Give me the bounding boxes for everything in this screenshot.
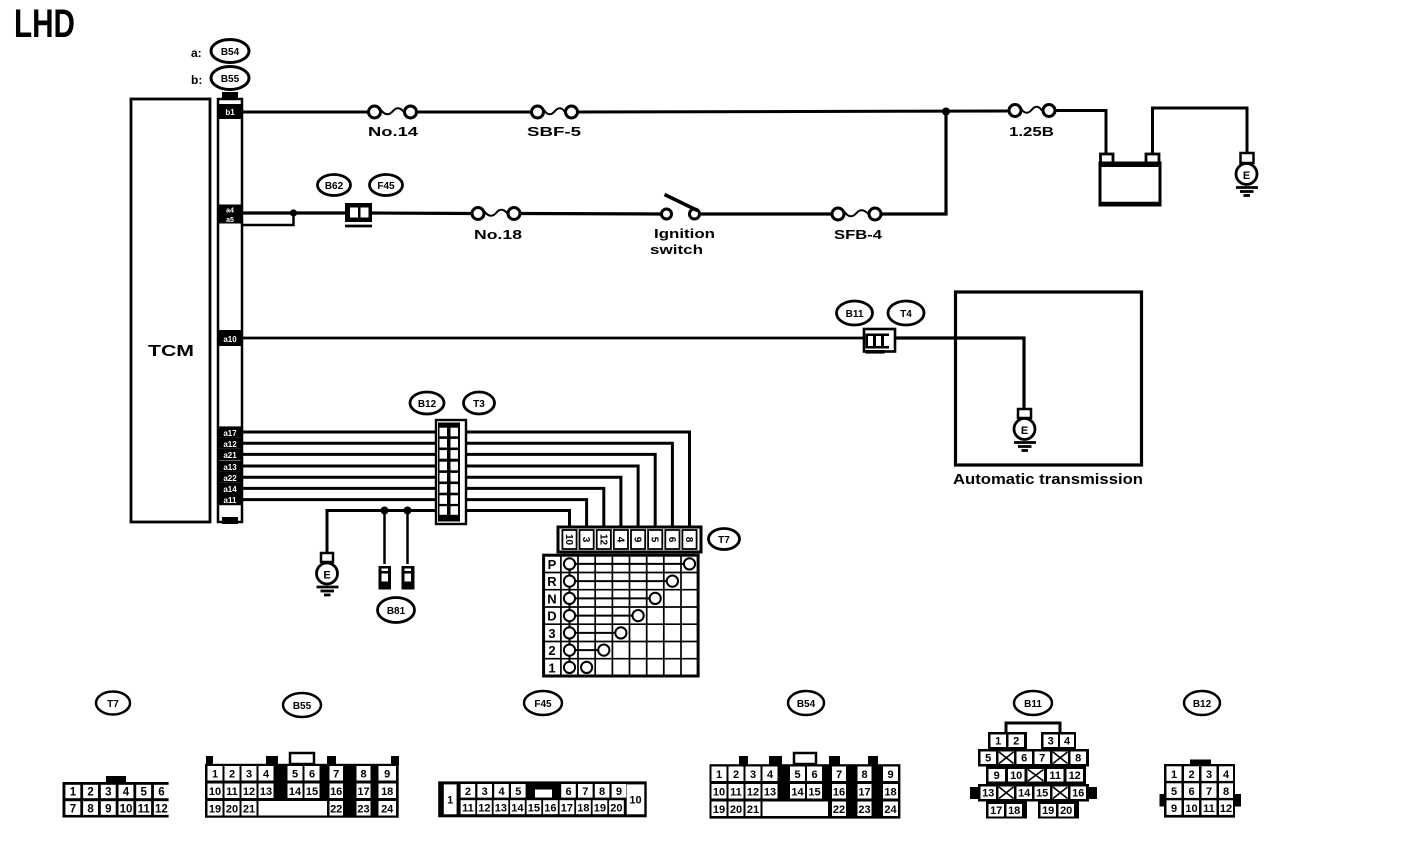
svg-text:6: 6 — [811, 769, 817, 781]
svg-text:a10: a10 — [223, 335, 237, 344]
svg-text:19: 19 — [594, 803, 606, 815]
svg-text:9: 9 — [1171, 803, 1177, 815]
connector label B81 — [378, 598, 415, 623]
svg-text:B11: B11 — [846, 309, 864, 320]
svg-text:7: 7 — [1039, 753, 1045, 765]
svg-text:1: 1 — [70, 787, 77, 799]
TCM pin a11 (bundle wire 7) — [219, 494, 242, 505]
svg-text:15: 15 — [528, 803, 540, 815]
svg-text:F45: F45 — [534, 699, 552, 710]
ignition switch — [662, 209, 672, 219]
wire tap1 to B81 terminal 1 — [383, 511, 386, 565]
svg-text:a5: a5 — [226, 217, 234, 224]
svg-text:TCM: TCM — [148, 343, 194, 360]
wire fuse SBF-5 to fuse 1.25B — [578, 111, 1010, 112]
svg-text:10: 10 — [713, 787, 725, 799]
connector label B55 (pinout) — [283, 693, 321, 717]
wire TCM b1 to fuse No.14 — [241, 111, 368, 114]
svg-text:Ignition: Ignition — [654, 226, 715, 241]
connector label F45 (pinout) — [524, 691, 562, 715]
inhibitor switch position grid — [544, 555, 699, 676]
svg-text:a12: a12 — [223, 440, 237, 449]
svg-text:2: 2 — [1188, 769, 1194, 781]
svg-text:19: 19 — [209, 804, 221, 816]
svg-text:4: 4 — [1223, 769, 1230, 781]
TCM pin b1 (line 1) — [219, 104, 242, 119]
svg-text:T3: T3 — [473, 399, 485, 410]
T7 strip pin numbers — [563, 534, 694, 546]
svg-text:11: 11 — [462, 803, 474, 815]
TCM pin a22 (bundle wire 5) — [219, 472, 242, 483]
svg-text:13: 13 — [260, 786, 272, 798]
wire ignition switch to fuse SFB-4 — [700, 212, 833, 215]
wire 1.25B to battery positive — [1056, 111, 1107, 155]
svg-text:B11: B11 — [1024, 699, 1042, 710]
svg-text:6: 6 — [1188, 786, 1194, 798]
svg-text:14: 14 — [289, 786, 302, 798]
svg-text:SBF-5: SBF-5 — [527, 124, 581, 139]
fuse No.18 — [472, 208, 484, 220]
svg-text:13: 13 — [764, 787, 776, 799]
svg-text:3: 3 — [1048, 736, 1054, 748]
svg-text:2: 2 — [733, 769, 739, 781]
wire tap2 to B81 terminal 2 — [406, 511, 409, 565]
svg-text:1: 1 — [447, 795, 453, 807]
svg-text:T4: T4 — [900, 309, 912, 320]
svg-text:1: 1 — [548, 661, 555, 676]
svg-text:9: 9 — [384, 769, 390, 781]
wire fuse No.18 to ignition switch — [520, 212, 662, 216]
connector pinout B55 — [205, 753, 399, 818]
svg-text:14: 14 — [511, 803, 524, 815]
svg-text:21: 21 — [243, 804, 255, 816]
connector label T7 (inline) — [709, 529, 740, 550]
svg-text:5: 5 — [985, 753, 991, 765]
ground E (automatic transmission) — [1018, 409, 1031, 418]
svg-text:5: 5 — [292, 769, 298, 781]
svg-text:a17: a17 — [223, 429, 237, 438]
contact row R — [570, 580, 673, 582]
ground E (body, left) — [321, 553, 333, 562]
svg-text:3: 3 — [1206, 769, 1212, 781]
svg-text:switch: switch — [650, 242, 703, 257]
wire fuse No.14 to fuse SBF-5 — [417, 111, 532, 114]
svg-text:D: D — [547, 609, 556, 624]
wire bundle 7 TCM a11 to T7 pin 3 — [241, 500, 587, 532]
svg-text:15: 15 — [1036, 788, 1048, 800]
fuse No.14 — [369, 106, 381, 118]
svg-text:4: 4 — [123, 787, 130, 799]
junction dot B81 tap 2 — [404, 507, 412, 515]
B12/T3 pin cells — [440, 428, 459, 515]
svg-text:10: 10 — [1185, 803, 1197, 815]
svg-text:9: 9 — [616, 786, 622, 798]
connector pinout B11 — [970, 723, 1097, 819]
svg-text:12: 12 — [155, 804, 168, 816]
svg-text:T7: T7 — [107, 699, 119, 710]
svg-text:18: 18 — [577, 803, 589, 815]
svg-text:20: 20 — [1060, 805, 1072, 817]
svg-text:9: 9 — [887, 769, 893, 781]
svg-text:20: 20 — [730, 804, 742, 816]
svg-text:3: 3 — [482, 786, 488, 798]
svg-text:4: 4 — [1064, 736, 1071, 748]
svg-text:B55: B55 — [221, 74, 240, 85]
connector label B11 (pinout) — [1014, 691, 1052, 715]
svg-text:No.18: No.18 — [474, 227, 522, 242]
svg-text:B54: B54 — [221, 47, 240, 58]
ground wire to T7 pin 10 — [327, 511, 570, 554]
wire SFB-4 up to line1 junction — [881, 112, 946, 215]
svg-text:2: 2 — [548, 643, 555, 658]
svg-text:B54: B54 — [797, 699, 816, 710]
svg-text:10: 10 — [629, 795, 641, 807]
svg-text:10: 10 — [563, 534, 574, 546]
svg-text:8: 8 — [861, 769, 867, 781]
svg-text:11: 11 — [1203, 803, 1215, 815]
svg-text:1: 1 — [716, 769, 722, 781]
svg-text:9: 9 — [994, 770, 1000, 782]
svg-text:Automatic transmission: Automatic transmission — [953, 472, 1143, 488]
svg-text:20: 20 — [226, 804, 238, 816]
svg-text:20: 20 — [610, 803, 622, 815]
svg-text:24: 24 — [884, 804, 897, 816]
svg-text:B62: B62 — [325, 181, 344, 192]
grid row labels P R N D 3 2 1 — [547, 557, 557, 676]
svg-text:18: 18 — [1008, 805, 1020, 817]
wire battery negative to ground — [1153, 108, 1248, 154]
svg-text:8: 8 — [1075, 753, 1081, 765]
svg-text:1: 1 — [995, 736, 1001, 748]
svg-text:b:: b: — [191, 73, 202, 87]
svg-text:10: 10 — [120, 804, 133, 816]
svg-text:B55: B55 — [293, 701, 312, 712]
svg-text:4: 4 — [263, 769, 270, 781]
svg-text:12: 12 — [747, 787, 759, 799]
svg-text:16: 16 — [544, 803, 556, 815]
svg-text:4: 4 — [498, 786, 505, 798]
svg-text:21: 21 — [747, 804, 759, 816]
svg-text:24: 24 — [381, 804, 394, 816]
svg-text:8: 8 — [1223, 786, 1229, 798]
connector label T7 (pinout) — [96, 692, 130, 715]
svg-text:a22: a22 — [223, 474, 237, 483]
wire bundle 1 TCM a17 to T7 pin 8 — [241, 432, 690, 532]
svg-text:a21: a21 — [223, 451, 237, 460]
svg-text:6: 6 — [666, 537, 677, 543]
svg-text:23: 23 — [858, 804, 870, 816]
svg-text:11: 11 — [138, 804, 151, 816]
fuse SBF-5 — [532, 106, 544, 118]
svg-text:4: 4 — [767, 769, 774, 781]
svg-text:12: 12 — [243, 786, 255, 798]
svg-text:3: 3 — [750, 769, 756, 781]
contact row 3 — [570, 632, 621, 634]
connector label B12 (pinout) — [1184, 691, 1220, 715]
ground E (battery) — [1241, 153, 1254, 163]
svg-text:2: 2 — [87, 787, 93, 799]
connector label B62 — [318, 175, 351, 196]
svg-text:B81: B81 — [387, 606, 406, 617]
TCM connector strip — [218, 99, 242, 522]
svg-text:16: 16 — [330, 786, 342, 798]
svg-text:12: 12 — [1069, 770, 1081, 782]
svg-text:6: 6 — [565, 786, 571, 798]
wire TCM a5 stub joining a4 — [241, 213, 294, 225]
svg-text:P: P — [548, 557, 557, 572]
TCM pin a17 (bundle wire 1) — [219, 426, 242, 437]
svg-text:a14: a14 — [223, 485, 237, 494]
svg-text:11: 11 — [730, 787, 742, 799]
svg-text:6: 6 — [158, 787, 164, 799]
connector label F45 — [370, 175, 403, 196]
svg-text:3: 3 — [548, 626, 555, 641]
svg-text:8: 8 — [360, 769, 366, 781]
connector B81 terminal 1 — [379, 566, 392, 590]
svg-text:3: 3 — [105, 787, 111, 799]
svg-text:13: 13 — [982, 788, 994, 800]
svg-text:a13: a13 — [223, 463, 237, 472]
wire connector to fuse No.18 — [372, 211, 472, 215]
wire bundle 4 TCM a13 to T7 pin 9 — [241, 466, 638, 532]
svg-text:E: E — [1021, 425, 1028, 437]
svg-text:10: 10 — [1010, 770, 1022, 782]
connector label B54 (pinout) — [788, 691, 824, 715]
junction dot line1/line2 — [942, 108, 950, 116]
svg-text:11: 11 — [1049, 770, 1061, 782]
junction dot a4/a5 — [290, 209, 297, 216]
inline connector T7 (inhibitor switch) — [558, 527, 701, 552]
svg-text:2: 2 — [1013, 736, 1019, 748]
svg-text:9: 9 — [105, 804, 111, 816]
wire bundle 5 TCM a22 to T7 pin 4 — [241, 477, 621, 532]
TCM pin a4 (line 2 upper) — [219, 205, 242, 215]
fuse SFB-4 — [832, 208, 844, 220]
svg-text:1.25B: 1.25B — [1009, 124, 1054, 139]
connector pinout F45 — [438, 781, 647, 817]
svg-text:17: 17 — [561, 803, 573, 815]
svg-text:T7: T7 — [718, 535, 730, 546]
svg-text:4: 4 — [614, 537, 625, 543]
inline connector B62/F45 — [345, 203, 372, 222]
svg-text:17: 17 — [858, 787, 870, 799]
svg-text:5: 5 — [1171, 786, 1177, 798]
connector label B11 — [837, 301, 873, 325]
svg-text:15: 15 — [306, 786, 318, 798]
svg-text:a4: a4 — [226, 208, 234, 215]
wire connector into automatic transmission — [895, 338, 1024, 409]
svg-text:5: 5 — [515, 786, 521, 798]
svg-text:14: 14 — [1018, 788, 1031, 800]
svg-text:19: 19 — [1042, 805, 1054, 817]
svg-text:12: 12 — [478, 803, 490, 815]
svg-text:2: 2 — [229, 769, 235, 781]
svg-text:LHD: LHD — [14, 2, 75, 46]
svg-text:17: 17 — [990, 805, 1002, 817]
svg-text:SFB-4: SFB-4 — [834, 227, 883, 242]
svg-text:19: 19 — [713, 804, 725, 816]
battery — [1101, 154, 1114, 163]
wire bundle 3 TCM a21 to T7 pin 5 — [241, 454, 655, 532]
switch common rail — [569, 564, 571, 668]
svg-text:7: 7 — [333, 769, 339, 781]
svg-text:7: 7 — [70, 804, 76, 816]
svg-text:R: R — [547, 574, 557, 589]
connector label B12 — [410, 392, 444, 414]
TCM pin a12 (bundle wire 2) — [219, 438, 242, 449]
svg-text:a:: a: — [191, 46, 202, 60]
TCM box — [131, 99, 210, 522]
svg-text:17: 17 — [357, 786, 369, 798]
connector label T4 — [888, 301, 924, 325]
svg-text:E: E — [1243, 170, 1250, 182]
svg-text:7: 7 — [836, 769, 842, 781]
wire bundle 6 TCM a14 to T7 pin 12 — [241, 488, 604, 532]
svg-text:No.14: No.14 — [368, 124, 419, 139]
svg-text:2: 2 — [465, 786, 471, 798]
automatic transmission box — [956, 292, 1142, 465]
inline connector B12/T3 body — [436, 420, 466, 524]
svg-text:F45: F45 — [377, 181, 395, 192]
fusible link 1.25B — [1009, 105, 1021, 117]
svg-text:6: 6 — [1021, 753, 1027, 765]
TCM pin a5 (line 2 lower) — [219, 214, 242, 224]
svg-text:18: 18 — [884, 787, 896, 799]
svg-text:12: 12 — [1220, 803, 1232, 815]
inline connector B11/T4 — [864, 329, 895, 352]
svg-text:8: 8 — [87, 804, 94, 816]
svg-text:15: 15 — [808, 787, 820, 799]
connector pinout T7 — [63, 776, 169, 818]
contact row D — [570, 615, 639, 617]
connector pinout B12 — [1160, 760, 1242, 818]
svg-text:8: 8 — [683, 537, 694, 543]
connector label T3 — [464, 392, 495, 414]
wire bundle 2 TCM a12 to T7 pin 6 — [241, 443, 672, 532]
contact row P — [570, 563, 690, 565]
contact row 2 — [570, 649, 604, 651]
svg-text:11: 11 — [226, 786, 238, 798]
svg-text:5: 5 — [649, 537, 660, 543]
svg-text:1: 1 — [1171, 769, 1177, 781]
TCM pin a13 (bundle wire 4) — [219, 460, 242, 471]
svg-text:1: 1 — [212, 769, 218, 781]
svg-text:12: 12 — [597, 534, 608, 546]
svg-text:16: 16 — [833, 787, 845, 799]
svg-text:B12: B12 — [1193, 699, 1212, 710]
wire TCM a4 to connector B62/F45 — [241, 211, 345, 214]
svg-text:8: 8 — [599, 786, 605, 798]
svg-text:b1: b1 — [225, 108, 235, 117]
TCM pin a10 (line 3) — [219, 330, 242, 346]
svg-text:23: 23 — [357, 804, 369, 816]
TCM pin a21 (bundle wire 3) — [219, 449, 242, 460]
svg-text:N: N — [547, 592, 556, 607]
svg-text:7: 7 — [1206, 786, 1212, 798]
svg-text:3: 3 — [246, 769, 252, 781]
svg-text:6: 6 — [309, 769, 315, 781]
svg-text:7: 7 — [582, 786, 588, 798]
svg-text:14: 14 — [791, 787, 804, 799]
svg-text:13: 13 — [495, 803, 507, 815]
TCM pin a14 (bundle wire 6) — [219, 483, 242, 494]
svg-text:22: 22 — [833, 804, 845, 816]
svg-text:a11: a11 — [224, 496, 237, 505]
connector B81 terminal 2 — [402, 566, 415, 590]
svg-text:5: 5 — [794, 769, 800, 781]
svg-text:E: E — [323, 570, 330, 582]
svg-text:3: 3 — [580, 537, 591, 543]
svg-text:9: 9 — [632, 537, 643, 543]
svg-text:18: 18 — [381, 786, 393, 798]
svg-text:B12: B12 — [418, 399, 437, 410]
svg-text:22: 22 — [330, 804, 342, 816]
svg-text:16: 16 — [1072, 788, 1084, 800]
contact row 1 — [564, 662, 575, 673]
connector pinout B54 — [710, 753, 901, 819]
svg-text:5: 5 — [140, 787, 147, 799]
junction dot B81 tap 1 — [381, 507, 389, 515]
wire TCM a10 to connector B11/T4 — [241, 337, 864, 340]
svg-text:10: 10 — [209, 786, 221, 798]
contact row N — [570, 597, 656, 599]
